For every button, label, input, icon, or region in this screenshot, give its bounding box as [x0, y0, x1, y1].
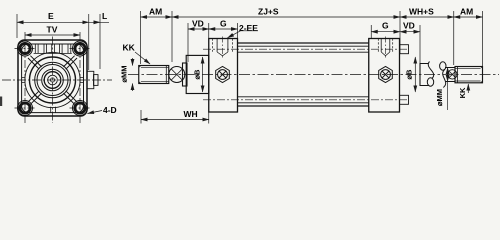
tie rod nut bottom rear — [400, 95, 409, 104]
rod break line 2 — [440, 62, 446, 70]
rod gland flange — [186, 55, 209, 93]
bolt hole top-left — [18, 41, 33, 56]
dimension MM right — [447, 68, 449, 82]
svg-text:AM: AM — [149, 7, 162, 17]
svg-text:KK: KK — [123, 43, 136, 53]
rear port thread (top, hidden lines) — [378, 39, 392, 52]
bolt row centerlines — [15, 49, 91, 109]
dimension VD left — [187, 23, 189, 62]
svg-text:WH+S: WH+S — [409, 7, 434, 17]
dimension phi B left — [202, 57, 204, 92]
rod small segment — [445, 68, 455, 82]
tie rod bottom — [238, 97, 369, 103]
leader 2-EE — [228, 31, 259, 38]
dimension G right — [370, 25, 372, 38]
svg-text:⌀MM: ⌀MM — [120, 65, 129, 82]
leader 4-D — [88, 111, 103, 114]
svg-text:AM: AM — [460, 7, 473, 17]
dimension phi B right — [414, 57, 416, 92]
svg-text:VD: VD — [192, 19, 204, 29]
dimension ZJ+S — [172, 16, 400, 18]
diagonal rib lower-left — [28, 91, 42, 105]
cylinder tube — [238, 43, 369, 106]
bolt column centerline left — [24, 32, 26, 123]
wrench flat circle right — [448, 70, 457, 79]
rear cushion needle (hex with cross) — [379, 66, 393, 82]
piston rod thread left (KK) — [139, 66, 169, 84]
front view vertical centerline — [52, 37, 54, 124]
bolt hole top-right — [73, 41, 88, 56]
tie rod nut top rear — [400, 45, 409, 54]
svg-text:4-D: 4-D — [103, 105, 117, 115]
rod collar left — [183, 63, 188, 86]
svg-text:⌀B: ⌀B — [193, 69, 202, 80]
top port channels — [34, 44, 72, 54]
tie rod top — [238, 46, 369, 52]
main centerline side view — [128, 74, 499, 76]
svg-text:2-EE: 2-EE — [239, 23, 258, 33]
bolt hole bottom-right — [73, 101, 88, 116]
dimension E — [16, 14, 18, 38]
tie rod bottom centerline — [203, 99, 409, 101]
bottom web spokes — [51, 107, 56, 113]
tie rod top centerline — [203, 48, 409, 50]
scan mark left edge — [0, 97, 2, 107]
svg-text:ZJ+S: ZJ+S — [258, 7, 279, 17]
leader KK right — [467, 84, 469, 93]
front view flange square — [18, 40, 87, 116]
svg-text:E: E — [48, 11, 54, 21]
svg-text:G: G — [220, 19, 227, 29]
dimension WH+S — [399, 11, 401, 54]
svg-text:KK: KK — [458, 87, 467, 98]
front view horizontal centerline — [2, 79, 112, 81]
svg-text:TV: TV — [47, 25, 58, 35]
dimension phi MM left — [132, 58, 134, 66]
svg-text:L: L — [102, 11, 107, 21]
rod thread right (KK) — [455, 67, 483, 83]
dimension WH — [140, 110, 142, 124]
svg-text:⌀B: ⌀B — [405, 69, 414, 80]
diagonal rib lower-right — [63, 91, 77, 105]
diagonal rib upper-right — [63, 56, 77, 69]
svg-text:⌀MM: ⌀MM — [435, 89, 444, 106]
front cushion needle (hex with cross) — [216, 66, 230, 82]
dimension AM left — [140, 11, 142, 64]
wrench flat circle left — [169, 67, 185, 83]
side boss stub on right of flange — [87, 71, 94, 88]
dimension AM right — [482, 11, 484, 66]
front port thread (top, hidden lines) — [213, 39, 233, 52]
bolt column centerline right — [79, 32, 81, 123]
svg-text:VD: VD — [403, 21, 415, 31]
dimension G left — [237, 23, 239, 38]
dimension VD right — [419, 25, 421, 63]
front view inner profile rounded rect — [22, 44, 84, 113]
rear head block — [369, 39, 400, 113]
rod break line 1 — [428, 62, 433, 79]
dimension L — [99, 14, 101, 69]
bore circle set — [25, 52, 80, 107]
diagonal rib upper-left — [28, 56, 42, 69]
front head block — [209, 39, 238, 113]
dimension TV — [25, 34, 80, 36]
bolt hole bottom-left — [18, 101, 33, 116]
svg-text:WH: WH — [184, 109, 198, 119]
rod collar right — [420, 64, 429, 86]
side web spokes — [22, 78, 84, 83]
leader KK left — [135, 52, 150, 64]
svg-text:G: G — [382, 21, 389, 31]
